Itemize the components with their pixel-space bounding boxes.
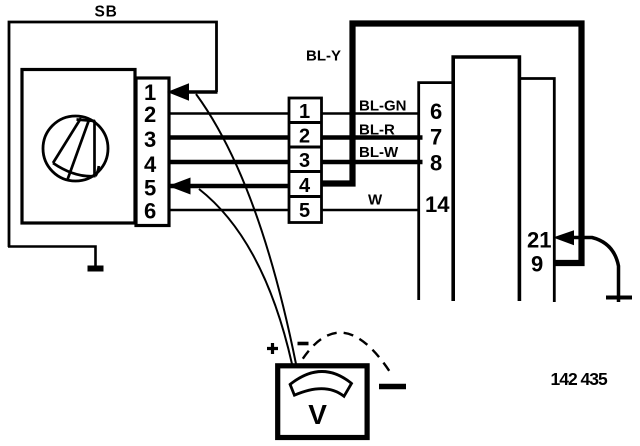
svg-text:4: 4 bbox=[144, 152, 157, 177]
probe arrow into pin 5 bbox=[170, 178, 191, 194]
ground (below SB instrument) bbox=[88, 266, 104, 272]
middle connector (pins 1-5) bbox=[289, 98, 322, 223]
probe lead from pin 1 to voltmeter plus bbox=[196, 94, 296, 364]
probe lead from pin 5 to voltmeter plus bbox=[199, 189, 292, 364]
svg-text:1: 1 bbox=[299, 101, 310, 123]
svg-text:5: 5 bbox=[144, 176, 156, 201]
wire: SB box loop (left, top, right drop to pin 1) bbox=[9, 22, 217, 247]
instrument box bbox=[22, 70, 135, 224]
wire pin5 to connector 4 (thick) bbox=[169, 184, 289, 189]
wire BL-W (thick) connector 3 to unit pin 8 bbox=[322, 160, 423, 165]
probe arrow into pin 1 bbox=[169, 84, 189, 100]
svg-text:4: 4 bbox=[299, 175, 311, 197]
right unit right section bbox=[519, 79, 554, 303]
wire: arrow tail at pin 21 to ground bbox=[571, 238, 619, 303]
svg-text:142 435: 142 435 bbox=[551, 369, 609, 389]
wire W (thin) connector 5 to unit pin 14 bbox=[322, 209, 421, 212]
svg-text:9: 9 bbox=[531, 252, 543, 277]
ground (right of unit) bbox=[606, 296, 632, 300]
svg-text:BL-GN: BL-GN bbox=[359, 98, 407, 115]
wire pin4 to connector 3 (thick) bbox=[169, 160, 289, 165]
svg-text:6: 6 bbox=[430, 99, 442, 124]
svg-text:BL-R: BL-R bbox=[359, 122, 395, 139]
wire: arrow tail at pin 1 bbox=[186, 90, 218, 94]
svg-text:SB: SB bbox=[95, 4, 118, 21]
wire BL-GN (thin) connector 1 to unit pin 6 bbox=[322, 112, 421, 115]
connector strip on instrument (pins 1-6) bbox=[136, 78, 169, 226]
svg-text:BL-Y: BL-Y bbox=[306, 48, 341, 65]
svg-text:W: W bbox=[368, 192, 383, 209]
voltmeter box bbox=[278, 366, 367, 438]
probe arrow into pin 21 bbox=[555, 231, 574, 245]
right unit tall section bbox=[453, 57, 519, 301]
wire pin2 to connector 1 (thin) bbox=[169, 112, 289, 115]
svg-text:21: 21 bbox=[527, 228, 551, 253]
svg-text:6: 6 bbox=[144, 199, 156, 224]
svg-text:2: 2 bbox=[299, 126, 310, 148]
svg-text:14: 14 bbox=[425, 192, 450, 217]
wire pin3 to connector 2 (thick) bbox=[169, 135, 289, 140]
right unit outer left edge bbox=[419, 83, 453, 300]
small dash (minus) near probe tip bbox=[298, 342, 309, 346]
svg-text:8: 8 bbox=[430, 151, 442, 176]
instrument symbol lines bbox=[53, 118, 99, 181]
svg-text:3: 3 bbox=[299, 150, 310, 172]
voltmeter scale band bbox=[290, 371, 351, 396]
svg-text:BL-W: BL-W bbox=[359, 144, 399, 161]
svg-text:V: V bbox=[308, 399, 327, 430]
svg-text:2: 2 bbox=[144, 102, 156, 127]
wire: SB bottom to ground bbox=[8, 247, 96, 267]
wire BL-R (thick) connector 2 to unit pin 7 bbox=[322, 135, 423, 140]
dashed arc from voltmeter to minus terminal bbox=[300, 333, 390, 372]
plus sign at probe tip bbox=[267, 343, 278, 354]
instrument symbol circle bbox=[43, 116, 108, 181]
svg-text:7: 7 bbox=[430, 125, 442, 150]
wire BL-Y (thick) connector 4 up over to unit pin 9 bbox=[322, 24, 582, 264]
wire pin6 to connector 5 (thin) bbox=[169, 209, 289, 212]
minus terminal bar bbox=[379, 384, 406, 389]
svg-text:5: 5 bbox=[299, 200, 310, 222]
svg-text:3: 3 bbox=[144, 127, 156, 152]
